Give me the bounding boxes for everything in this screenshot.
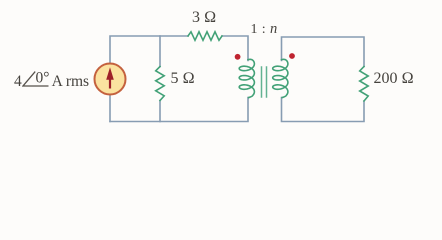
label 200 ohm <box>374 70 414 88</box>
wire top rail right of 3ohm into primary <box>222 36 248 61</box>
current source arrow <box>106 67 114 88</box>
inductor secondary winding L2 <box>273 59 288 97</box>
polarity dot secondary <box>289 53 295 59</box>
resistor R2 5ohm <box>156 67 165 101</box>
wire bottom rail left loop <box>110 98 248 122</box>
label 3 ohm <box>192 9 216 27</box>
label source value 4 angle 0 deg A rms <box>14 69 89 91</box>
transformer core line 2 <box>266 67 268 97</box>
polarity dot primary <box>235 54 241 60</box>
resistor R1 3ohm <box>188 32 222 41</box>
wire secondary loop bottom <box>282 98 365 122</box>
svg-text:0°: 0° <box>35 70 49 87</box>
label 5 ohm <box>171 70 195 88</box>
wire 5ohm branch bottom <box>159 101 161 122</box>
wire secondary loop top <box>282 37 365 67</box>
label turns ratio 1:n <box>251 21 278 38</box>
transformer core line 1 <box>261 67 263 97</box>
wire left vertical with source <box>110 36 188 122</box>
current source I1 circle <box>95 64 126 95</box>
inductor primary winding L1 <box>239 59 254 97</box>
resistor R3 200ohm <box>360 67 369 102</box>
wire 5ohm branch top <box>159 36 161 67</box>
